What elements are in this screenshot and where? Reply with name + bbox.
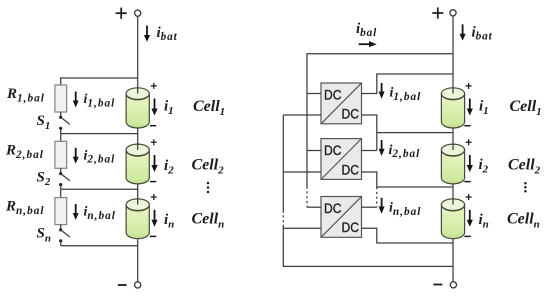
wire: branchn top stub [60, 189, 62, 197]
arrow i_1 (right) [469, 99, 471, 110]
wire: dc2 right top stub [362, 150, 377, 152]
minus mark celln (left) [150, 235, 156, 237]
minus sign (right pack negative) [434, 284, 443, 286]
DC/DC converter n [321, 197, 362, 238]
wire: dcn right top stub [362, 206, 377, 208]
svg-text:DC: DC [324, 200, 342, 216]
wire: right main vertical, terminal to cell1 top [452, 16, 454, 88]
wire: dc1 left top [307, 93, 321, 95]
plus mark celln (right) [466, 194, 472, 200]
wire: dcn right bottom riser to celln bottom node [362, 228, 454, 243]
plus sign (right pack positive) [432, 7, 443, 18]
wire: right main vertical cell1-cell2 [452, 128, 454, 144]
wire: right main vertical cell2-celln [452, 184, 454, 199]
ellipsis dots (left) [207, 182, 210, 194]
wire: left main vertical celln to bottom terminal [137, 239, 139, 282]
wire: left lower vertical bus x283 [282, 115, 284, 211]
resistor R2,bal [55, 141, 67, 168]
wire: dc2 left bottom [283, 171, 321, 173]
svg-text:DC: DC [324, 142, 342, 158]
svg-text:DC: DC [342, 106, 360, 122]
positive terminal (right) [450, 10, 456, 16]
wire: dc1 right bottom riser to node1-2 [362, 115, 454, 133]
arrow i_n,bal (left rown) [75, 204, 77, 214]
minus sign (left pack negative) [118, 284, 127, 286]
wire: branchn bottom wire (left) [61, 245, 138, 247]
negative terminal (left) [135, 282, 141, 288]
cell Cell2 (left) [126, 144, 149, 184]
cell Cell1 (left) [126, 88, 149, 128]
arrow i_2 (left) [154, 155, 156, 166]
plus mark celln (left) [151, 194, 157, 200]
arrow i_bat (right) [462, 24, 464, 35]
minus mark cell1 (left) [150, 125, 156, 127]
arrow i_2,bal (left row2) [75, 148, 77, 158]
cell Cell1 (right) [441, 88, 464, 128]
switch S2 [60, 168, 62, 172]
arrow i_bal (right, horizontal) [359, 43, 370, 45]
wire: branch2 top stub [60, 134, 62, 142]
wire: dc2 right bottom riser to node2-n [362, 172, 454, 187]
arrow i_2,bal (right row2) [381, 140, 383, 150]
wire: top bus (right circuit) [307, 54, 453, 94]
minus mark cell2 (right) [464, 181, 470, 183]
negative terminal (right) [450, 282, 456, 288]
switch Sn [60, 225, 62, 229]
plus mark cell2 (left) [151, 139, 157, 145]
arrow i_n,bal (right rown) [381, 198, 383, 208]
wire: dcn left top [307, 206, 321, 208]
minus mark cell1 (right) [464, 125, 470, 127]
plus mark cell1 (left) [151, 83, 157, 89]
wire: left main vertical cell1-cell2 [137, 128, 139, 144]
positive terminal (left) [135, 10, 141, 16]
wire: dcn left bottom [283, 227, 321, 229]
minus mark cell2 (left) [150, 181, 156, 183]
arrow i_n (right) [469, 210, 471, 221]
svg-text:DC: DC [342, 219, 360, 235]
dashed continuation x283 [282, 211, 284, 227]
cell Celln (right) [441, 199, 464, 239]
cell Celln (left) [126, 199, 149, 239]
wire: x283 lower solid to bottom bus [283, 226, 453, 266]
arrow i_n (left) [154, 210, 156, 221]
wire: node wire cell1-cell2 (left) [61, 133, 138, 135]
DC/DC converter 2 [321, 139, 362, 180]
dashed riser node2-n to dcn top [376, 187, 378, 207]
plus mark cell2 (right) [466, 139, 472, 145]
ellipsis dots (right) [524, 182, 527, 193]
svg-text:DC: DC [342, 161, 360, 177]
wire: right main vertical celln to bottom terminal [452, 239, 454, 282]
minus mark celln (right) [464, 235, 470, 237]
wire: left main vertical, terminal to cell1 top [137, 16, 139, 88]
wire: dc1 right top riser [362, 74, 454, 94]
wire: x307 vertical lower part [306, 94, 308, 187]
DC/DC converter 1 [321, 83, 362, 124]
wire: left main vertical cell2-celln [137, 184, 139, 199]
arrow i_1 (left) [154, 99, 156, 110]
plus sign (left pack positive) [116, 8, 127, 19]
resistor Rn,bal [55, 198, 67, 225]
switch S1 [60, 112, 62, 116]
cell Cell2 (right) [441, 144, 464, 184]
wire: dc2 left top [307, 150, 321, 152]
wire: riser continues to dc2 top [376, 133, 378, 151]
wire: node wire cell2-celln (left) [61, 188, 138, 190]
arrow i_2 (right) [469, 155, 471, 166]
plus mark cell1 (right) [466, 83, 472, 89]
svg-text:DC: DC [324, 86, 342, 102]
arrow i_bat (left) [146, 26, 148, 37]
resistor R1,bal [55, 85, 67, 112]
arrow i_1,bal (right row1) [381, 83, 383, 93]
wire: branch1 top wire [61, 78, 138, 85]
dashed continuation x307 [306, 187, 308, 208]
wire: dc1 left bottom [283, 114, 321, 116]
arrow i_1,bal (left row1) [75, 92, 77, 102]
